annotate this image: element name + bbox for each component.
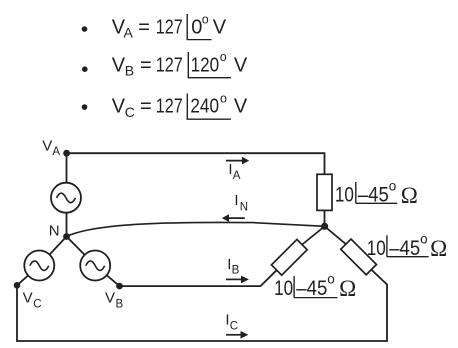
phasor voltage value label VA = 127∠0° V	[82, 12, 227, 40]
svg-text:127: 127	[156, 54, 183, 76]
svg-text:=: =	[140, 96, 152, 118]
wire VA node down through source A to node N	[66, 153, 68, 236]
svg-text:I: I	[234, 192, 238, 209]
node VA	[42, 138, 70, 159]
svg-text:V: V	[112, 96, 126, 118]
svg-text:C: C	[230, 320, 238, 332]
svg-text:o: o	[220, 91, 227, 105]
svg-text:V: V	[105, 290, 115, 307]
svg-text:Ω: Ω	[430, 236, 447, 261]
svg-text:A: A	[52, 146, 60, 158]
svg-text:0: 0	[191, 17, 202, 39]
wire N to source B to VB node	[67, 237, 120, 287]
svg-text:o: o	[389, 179, 397, 194]
svg-text:C: C	[125, 104, 135, 120]
phasor voltage value label VC = 127∠240° V	[82, 91, 248, 119]
svg-text:10: 10	[367, 237, 386, 260]
value label ZC 10∠-45° Ω	[367, 232, 447, 262]
current arrow IA	[226, 157, 249, 182]
svg-text:120: 120	[191, 54, 220, 76]
wire resistor ZC to bottom return and VC node (phase C)	[17, 270, 387, 341]
neutral wire N to load star node	[67, 222, 325, 236]
current arrow IN	[222, 192, 248, 222]
svg-text:=: =	[140, 54, 152, 76]
current arrow IC	[225, 312, 248, 339]
svg-text:B: B	[125, 62, 134, 78]
svg-text:N: N	[240, 201, 248, 213]
svg-text:V: V	[112, 54, 126, 76]
svg-text:=: =	[138, 17, 150, 39]
svg-text:V: V	[23, 290, 33, 307]
node VC	[14, 282, 42, 310]
ac source VA (top)	[51, 183, 81, 213]
svg-text:B: B	[116, 298, 124, 310]
svg-text:A: A	[124, 25, 134, 41]
svg-text:Ω: Ω	[339, 276, 356, 301]
svg-text:o: o	[220, 50, 227, 64]
wire star node to resistor ZB	[302, 226, 325, 244]
svg-text:240: 240	[190, 96, 219, 118]
resistor ZA (vertical)	[317, 174, 332, 210]
svg-text:o: o	[327, 271, 335, 286]
resistor ZC (lower-right diagonal)	[341, 239, 377, 275]
resistor ZB (lower-left diagonal)	[271, 239, 307, 275]
node VB	[105, 283, 124, 310]
current arrow IB	[226, 256, 249, 283]
svg-text:B: B	[232, 264, 240, 276]
svg-text:N: N	[49, 223, 60, 240]
value label ZA 10∠-45° Ω	[335, 179, 418, 208]
node N	[49, 223, 70, 240]
load star node	[321, 223, 328, 230]
value label ZB 10∠-45° Ω	[274, 271, 356, 301]
wire VB node to resistor ZB (phase B)	[120, 270, 277, 286]
svg-text:o: o	[202, 12, 209, 26]
svg-text:127: 127	[156, 96, 183, 118]
svg-text:–45: –45	[389, 237, 420, 260]
svg-text:V: V	[234, 96, 248, 118]
svg-text:V: V	[42, 138, 52, 155]
wire star node to resistor ZC	[325, 226, 346, 244]
phasor voltage value label VB = 127∠120° V	[82, 50, 248, 78]
svg-text:Ω: Ω	[401, 183, 418, 208]
svg-text:–45: –45	[296, 277, 327, 300]
ac source VB (lower-middle)	[80, 251, 110, 281]
svg-text:127: 127	[156, 17, 183, 39]
svg-text:o: o	[420, 232, 428, 247]
ac source VC (lower-left)	[24, 251, 54, 281]
wire N to source C to VC node	[17, 237, 67, 286]
wire phase A: VA node to top-right corner down to load ZA	[67, 153, 325, 174]
svg-text:A: A	[233, 170, 241, 182]
svg-text:C: C	[33, 298, 41, 310]
svg-text:10: 10	[335, 184, 354, 207]
wire ZA to star node	[324, 210, 326, 226]
svg-text:–45: –45	[358, 184, 389, 207]
svg-text:V: V	[213, 17, 227, 39]
svg-text:V: V	[234, 54, 248, 76]
svg-text:10: 10	[274, 277, 293, 300]
